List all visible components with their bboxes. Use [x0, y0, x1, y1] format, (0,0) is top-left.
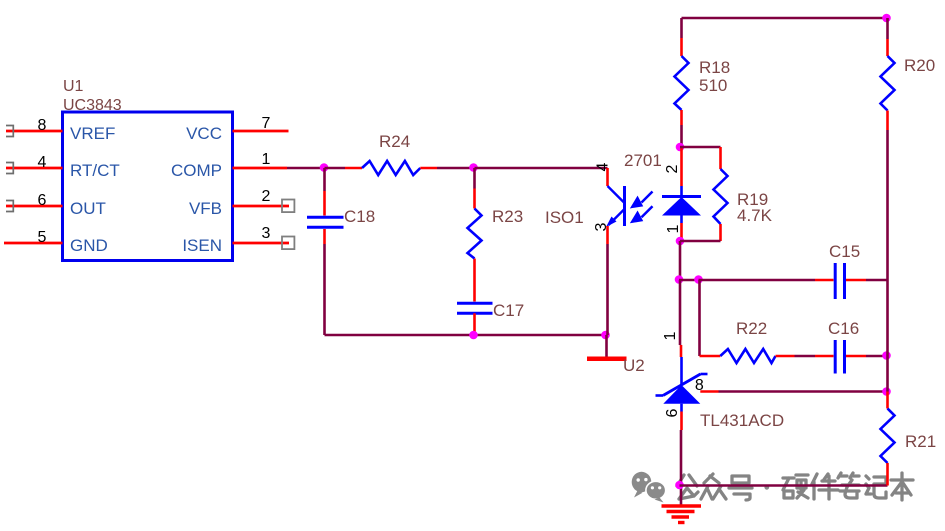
right column wire R20	[886, 18, 889, 56]
pin name GND	[70, 236, 108, 255]
svg-text:U2: U2	[623, 356, 645, 375]
pin name OUT	[70, 199, 106, 218]
svg-text:8: 8	[38, 117, 47, 134]
pin 2 number	[262, 188, 271, 205]
wire node A to R24	[325, 167, 363, 170]
TL431ACD label	[700, 411, 784, 430]
TL431 pin 6 number	[664, 408, 681, 417]
wire node G down to node H	[679, 241, 682, 280]
svg-text:C16: C16	[828, 319, 859, 338]
svg-text:C18: C18	[344, 207, 375, 226]
pin 5 GND wire	[4, 242, 63, 245]
svg-text:6: 6	[664, 408, 681, 417]
svg-text:C15: C15	[829, 242, 860, 261]
R20 label	[904, 56, 935, 75]
right column wire to R21	[886, 392, 889, 409]
svg-text:4.7K: 4.7K	[737, 206, 773, 225]
opto LED top lead	[680, 147, 683, 197]
pin 7 number	[262, 115, 271, 132]
svg-text:U1: U1	[63, 78, 84, 95]
node L junction dot (ground net)	[675, 481, 684, 490]
ISO1 label	[545, 208, 584, 227]
node D junction dot (opto emitter net)	[601, 331, 610, 340]
capacitor C17 bottom lead	[473, 313, 476, 335]
U2 label	[623, 356, 645, 375]
pin 4 number	[38, 154, 47, 171]
pin 3 number	[262, 225, 271, 242]
R18 value 510	[699, 76, 727, 95]
pin 2 VFB wire	[233, 205, 290, 208]
TL431 pin 1 number	[662, 331, 679, 340]
capacitor C18 plates	[307, 217, 344, 227]
R22 right lead	[776, 355, 834, 358]
R22 label	[736, 319, 767, 338]
svg-text:ISO1: ISO1	[545, 208, 584, 227]
resistor R24	[362, 161, 420, 175]
svg-text:C17: C17	[493, 301, 524, 320]
svg-text:COMP: COMP	[171, 161, 222, 180]
watermark icon speech bubbles	[632, 472, 666, 503]
TL431 U2 shunt regulator symbol	[656, 374, 708, 404]
resistor R21	[881, 409, 895, 464]
svg-text:7: 7	[262, 115, 271, 132]
pin name VFB	[189, 199, 222, 218]
pin 3 no-connect square	[282, 237, 294, 250]
pin 8 no-connect square	[6, 126, 13, 137]
pin name RT/CT	[70, 161, 120, 180]
pin name VREF	[70, 124, 115, 143]
svg-text:RT/CT: RT/CT	[70, 161, 120, 180]
TL431 pin 8 wire to right column	[700, 390, 887, 393]
R19 top branch wire	[680, 147, 721, 169]
U2 power bar	[587, 357, 627, 362]
svg-text:3: 3	[593, 222, 610, 231]
pin 2 no-connect square	[282, 200, 294, 213]
node F junction dot (LED anode / R19 top)	[676, 143, 685, 152]
pin 4 no-connect square	[6, 163, 13, 174]
right column wire R20 to C16 row	[886, 111, 889, 392]
R19 bottom branch wire	[680, 224, 721, 241]
capacitor C15 plates	[835, 263, 844, 299]
TL431 bottom lead	[680, 404, 683, 506]
resistor R19	[714, 169, 728, 224]
glyph zhong	[701, 474, 726, 499]
glyph hao	[729, 476, 752, 500]
capacitor C18 leads	[323, 168, 326, 335]
C16 label	[828, 319, 859, 338]
resistor R23	[468, 209, 482, 259]
pin name COMP	[171, 161, 222, 180]
top wire R18 to R20	[682, 17, 888, 20]
glyph ben	[891, 473, 913, 500]
bottom wire ground to R21	[680, 484, 888, 487]
opto LED pin 1 number	[665, 224, 682, 233]
C17 label	[493, 301, 524, 320]
opto ISO1 phototransistor	[606, 186, 625, 227]
svg-text:R21: R21	[905, 432, 936, 451]
wire node H down to TL431	[680, 280, 682, 385]
pin 6 OUT wire	[6, 205, 63, 208]
svg-text:R23: R23	[492, 207, 523, 226]
pin 7 VCC wire	[233, 130, 289, 133]
U1 designator label	[63, 78, 122, 114]
pin 1 number	[262, 151, 271, 168]
svg-text:R20: R20	[904, 56, 935, 75]
R19 label	[737, 190, 768, 209]
opto ISO1 pin 4 wire	[606, 168, 609, 186]
opto pin 3 number	[593, 222, 610, 231]
svg-text:510: 510	[699, 76, 727, 95]
op-amp U1 UC3843 body	[63, 112, 233, 261]
ground symbol	[662, 506, 702, 523]
svg-text:6: 6	[38, 192, 47, 209]
glyph gong	[677, 475, 698, 499]
pin name ISEN	[182, 236, 222, 255]
resistor R20	[881, 56, 895, 111]
2701 label	[624, 151, 662, 170]
wire node I down to R22	[698, 280, 701, 356]
pin name VCC	[186, 124, 222, 143]
glyph ying	[783, 475, 808, 498]
wire COMP to node A	[287, 167, 325, 170]
wire C15 to right column	[846, 279, 888, 282]
opto LED (diode)	[662, 197, 701, 216]
capacitor C16 plates	[835, 340, 844, 374]
svg-text:ISEN: ISEN	[182, 236, 222, 255]
node G junction dot (LED cathode / R19 bottom)	[676, 237, 685, 246]
TL431 pin 8 number	[695, 377, 704, 394]
opto pin 3 wire	[606, 226, 609, 335]
svg-text:VREF: VREF	[70, 124, 115, 143]
wire R24 to node B	[420, 167, 474, 170]
svg-text:GND: GND	[70, 236, 108, 255]
R22 left lead	[700, 355, 721, 358]
svg-text:3: 3	[262, 225, 271, 242]
capacitor C17 plates	[457, 303, 493, 313]
svg-text:1: 1	[262, 151, 271, 168]
svg-text:2: 2	[664, 164, 681, 173]
pin 1 COMP wire	[233, 167, 288, 170]
wire node D to U2 power bar	[605, 335, 608, 357]
middle dot	[764, 485, 769, 490]
opto light arrows	[632, 192, 652, 222]
R18 label	[699, 58, 730, 77]
R21 bottom lead	[886, 463, 889, 486]
svg-text:5: 5	[38, 229, 47, 246]
svg-text:UC3843: UC3843	[63, 97, 122, 114]
R18 top lead	[680, 18, 683, 56]
resistor R18	[675, 56, 689, 110]
bottom wire C18 to opto node	[325, 334, 607, 337]
glyph bi	[838, 473, 859, 498]
svg-text:OUT: OUT	[70, 199, 106, 218]
svg-text:4: 4	[595, 162, 612, 171]
R21 label	[905, 432, 936, 451]
node B junction dot	[469, 163, 478, 172]
R24 label	[379, 132, 410, 151]
node E junction dot (top right)	[882, 14, 891, 23]
svg-text:1: 1	[662, 331, 679, 340]
watermark text 公众号·硬件笔记本 (hand-drawn strokes)	[677, 473, 913, 500]
svg-text:VCC: VCC	[186, 124, 222, 143]
pin 8 VREF wire	[6, 130, 63, 133]
C15 label	[829, 242, 860, 261]
svg-text:VFB: VFB	[189, 199, 222, 218]
R23 label	[492, 207, 523, 226]
svg-text:1: 1	[665, 224, 682, 233]
resistor R22	[720, 349, 775, 363]
glyph jian	[812, 474, 838, 499]
glyph ji	[866, 476, 886, 498]
node I junction dot	[694, 275, 703, 284]
resistor R23 leads	[473, 168, 476, 302]
R19 value 4.7K	[737, 206, 773, 225]
opto pin 4 number	[595, 162, 612, 171]
wire node I to C15	[699, 279, 834, 282]
svg-text:2: 2	[262, 188, 271, 205]
C18 label	[344, 207, 375, 226]
svg-text:TL431ACD: TL431ACD	[700, 411, 784, 430]
node C junction dot (C17 bottom)	[469, 331, 478, 340]
node H junction dot	[675, 275, 684, 284]
node K junction dot (pin8 right)	[882, 387, 891, 396]
pin 4 RT/CT wire	[6, 167, 63, 170]
wire node H to node I	[679, 279, 700, 282]
pin 3 ISEN wire	[233, 242, 290, 245]
svg-text:R18: R18	[699, 58, 730, 77]
node A junction dot	[320, 163, 329, 172]
pin 6 no-connect square	[6, 201, 13, 212]
svg-text:4: 4	[38, 154, 47, 171]
pin 6 number	[38, 192, 47, 209]
opto LED pin 2 number	[664, 164, 681, 173]
svg-text:R24: R24	[379, 132, 410, 151]
pin 5 number	[38, 229, 47, 246]
wire node B to opto corner	[475, 167, 608, 170]
opto LED bottom lead	[680, 216, 683, 242]
svg-text:R22: R22	[736, 319, 767, 338]
R18 bottom lead	[680, 110, 683, 147]
wire C16 to right column	[846, 355, 888, 358]
svg-text:2701: 2701	[624, 151, 662, 170]
pin 8 number	[38, 117, 47, 134]
node J junction dot (C16 right)	[882, 351, 891, 360]
